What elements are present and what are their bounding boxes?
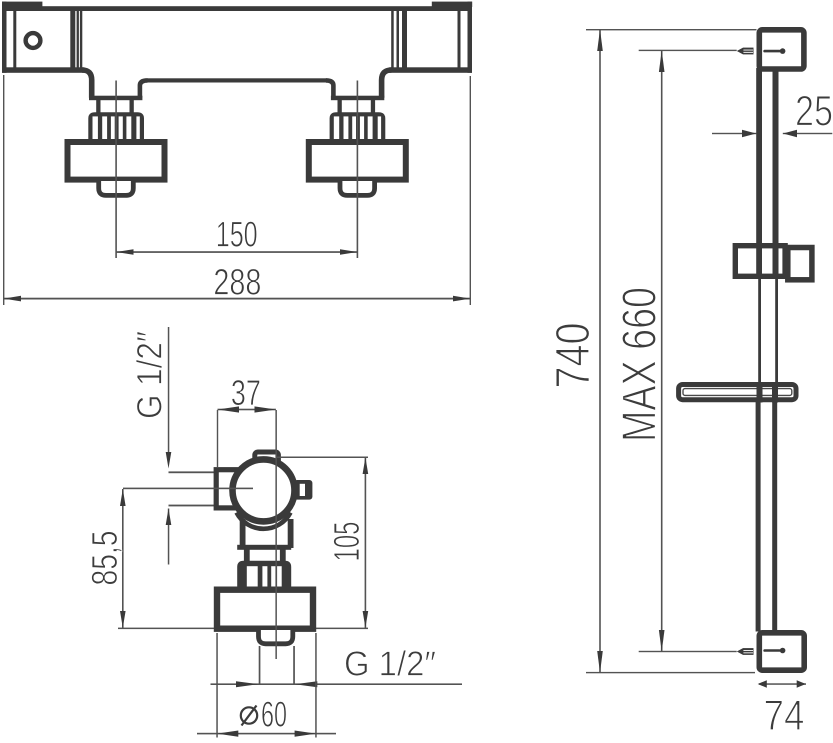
- right knob thin line 2: [397, 10, 400, 68]
- G 1/2 outlet arrow left: [236, 681, 258, 687]
- dim 150 arrow left: [116, 249, 133, 255]
- G 1/2 arrow down: [166, 452, 172, 469]
- dim MAX660 ext line top: [639, 50, 737, 51]
- housing left side: [240, 519, 246, 548]
- soap dish: [679, 385, 796, 400]
- rail through dish left: [757, 384, 763, 403]
- dim 37 ext line left: [217, 410, 218, 467]
- dim MAX660 line: [661, 50, 663, 652]
- dim 60 line: [197, 733, 336, 735]
- pipe axis line: [123, 488, 253, 490]
- dim 74 line: [759, 683, 806, 685]
- right leg shoulder line: [331, 96, 384, 101]
- side mounting nut: [217, 590, 313, 629]
- slider knob: [788, 248, 812, 280]
- bottom arc: [237, 513, 291, 529]
- left knob thin line 2: [80, 10, 82, 68]
- dim 74 arrow left: [758, 680, 767, 688]
- housing right side: [288, 519, 294, 548]
- right leg left shoulder curve: [326, 80, 334, 97]
- svg-text:25: 25: [795, 88, 833, 136]
- slider block: [735, 246, 785, 277]
- body middle bottom line: [147, 78, 327, 82]
- right body outer edge: [468, 2, 473, 73]
- SIDE VIEW mixer valve: [84, 327, 462, 738]
- svg-text:150: 150: [216, 213, 258, 254]
- svg-text:60: 60: [261, 694, 287, 735]
- top wall anchor symbol: [737, 48, 743, 55]
- bottom wall bracket: [759, 633, 804, 670]
- rail tube middle left line: [758, 279, 761, 384]
- dim 60 arrow left: [217, 731, 238, 737]
- rail tube lower right line: [772, 402, 777, 632]
- G 1/2 pointer line upper: [168, 327, 170, 453]
- FRONT VIEW mixer: [2, 2, 472, 305]
- dim 85.5 line: [122, 489, 124, 628]
- dim 25 left line: [712, 133, 757, 134]
- dim 37 arrow left: [218, 406, 239, 412]
- left knob thin line 1: [77, 10, 79, 68]
- svg-text:288: 288: [213, 261, 261, 302]
- right leg outlet: [340, 181, 375, 195]
- right knob thin line 1: [391, 10, 394, 68]
- left knob bottom line: [2, 67, 84, 73]
- dim MAX660 arrow down: [659, 630, 665, 652]
- svg-text:105: 105: [326, 522, 367, 562]
- dim 25 arrow left-pointing: [783, 130, 797, 137]
- dim 740 ext line top: [586, 29, 757, 30]
- dim 105 arrow up: [363, 457, 369, 474]
- rail tube lower left line: [756, 402, 761, 632]
- svg-text:740: 740: [547, 323, 600, 389]
- dim 105 ext line top: [277, 457, 368, 459]
- dim 288 ext line left: [3, 75, 4, 305]
- nut base reference line: [118, 628, 368, 630]
- left leg shoulder line: [89, 96, 142, 101]
- dim 105 line: [365, 457, 367, 628]
- dim 740 arrow up: [597, 29, 603, 51]
- svg-text:MAX 660: MAX 660: [613, 287, 666, 442]
- left leg neck left: [96, 99, 100, 114]
- body top bar: [2, 6, 470, 11]
- svg-text:G 1/2″: G 1/2″: [131, 331, 170, 419]
- soap dish inner line: [683, 389, 792, 396]
- right tab: [294, 480, 312, 500]
- right leg centerline: [357, 81, 359, 259]
- bottom bracket screw: [763, 649, 781, 652]
- rail tube upper right line: [773, 68, 779, 279]
- dim 85.5 arrow up: [120, 489, 126, 506]
- dim 740 arrow down: [597, 651, 603, 673]
- top wall bracket: [759, 30, 804, 69]
- inlet flange: [216, 470, 238, 508]
- svg-text:85,5: 85,5: [84, 531, 125, 586]
- rail through dish right: [772, 384, 778, 403]
- outlet pipe right line: [293, 646, 295, 685]
- dim 60 arrow right: [295, 731, 316, 737]
- dim 74 arrow right: [797, 680, 806, 688]
- dim 37 line: [218, 409, 276, 411]
- dim 288 ext line right: [470, 76, 471, 305]
- dim 740 ext line bottom: [586, 672, 755, 673]
- left leg outlet: [99, 181, 134, 195]
- dim MAX660 ext line bottom: [639, 651, 737, 652]
- right knob divider: [402, 10, 407, 68]
- left knob divider: [70, 10, 75, 68]
- rail tube upper left line: [756, 68, 762, 279]
- rail tube middle right line: [775, 279, 778, 384]
- right leg neck left: [338, 99, 342, 114]
- RAIL VIEW shower slide bar: [547, 29, 833, 740]
- left leg neck right: [130, 99, 134, 114]
- valve body circle: [233, 459, 295, 521]
- right end cap: [432, 2, 472, 7]
- G 1/2 arrow up: [166, 509, 172, 526]
- dim 85.5 arrow down: [120, 611, 126, 628]
- dim 25 arrow right-pointing: [742, 130, 756, 137]
- right leg right shoulder curve: [382, 70, 392, 98]
- diameter symbol: [241, 707, 257, 723]
- dim 288 line: [4, 298, 471, 300]
- left leg left shoulder curve: [82, 70, 92, 98]
- dim 25 right line: [783, 133, 833, 134]
- left knob inset line: [13, 10, 16, 68]
- dim 150 arrow right: [340, 249, 357, 255]
- right leg neck right: [371, 99, 375, 114]
- dim 60 ext line right: [315, 633, 317, 738]
- right knob bottom line: [389, 67, 472, 73]
- bottom wall anchor symbol: [737, 648, 743, 655]
- dim 37 arrow right: [255, 406, 276, 412]
- right knob inset line: [458, 10, 461, 68]
- valve centerline / dim 37 ext right: [275, 410, 277, 659]
- neck left: [244, 549, 250, 563]
- G 1/2 pointer line lower: [168, 509, 170, 565]
- side outlet: [259, 630, 293, 644]
- side ribbed collar: [237, 561, 291, 592]
- housing bottom band: [237, 545, 291, 550]
- dim 288 arrow right: [453, 296, 470, 302]
- dim 288 arrow left: [4, 296, 21, 302]
- inlet pipe top line: [169, 471, 216, 473]
- dim 105 arrow down: [363, 611, 369, 628]
- inlet pipe bottom line: [169, 505, 216, 507]
- right leg nut: [309, 142, 406, 180]
- G 1/2 outlet leader line: [211, 683, 463, 685]
- top cap: [255, 452, 279, 468]
- dim 740 line: [599, 29, 601, 673]
- left end cap: [2, 2, 42, 7]
- knob screw circle: [26, 33, 41, 48]
- G 1/2 outlet arrow right: [295, 681, 317, 687]
- left body outer edge: [2, 2, 7, 73]
- dim 150 line: [116, 251, 357, 253]
- right leg ribbed collar: [330, 112, 386, 143]
- svg-text:74: 74: [763, 692, 804, 740]
- outlet pipe left line: [259, 646, 261, 685]
- top bracket screw: [763, 50, 781, 53]
- left leg centerline: [115, 81, 117, 259]
- dim 60 ext line left: [216, 633, 218, 738]
- left leg nut: [68, 142, 165, 180]
- dim MAX660 arrow up: [659, 50, 665, 72]
- left leg ribbed collar: [88, 112, 144, 143]
- neck right: [280, 549, 286, 563]
- svg-text:G 1/2″: G 1/2″: [344, 645, 436, 684]
- left leg right shoulder curve: [140, 80, 148, 97]
